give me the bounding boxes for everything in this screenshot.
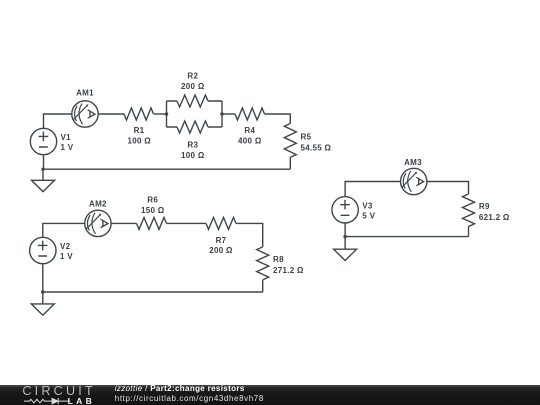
svg-text:AM2: AM2 (89, 199, 107, 208)
svg-text:R3: R3 (187, 141, 198, 150)
wire R8 bottom lead (262, 280, 264, 292)
wire circuit1 bottom rail (43, 168, 290, 170)
svg-text:V1: V1 (61, 133, 72, 142)
node ground2 junction dot (41, 290, 45, 294)
wire V1 top to AM1 (44, 114, 72, 128)
svg-text:1 V: 1 V (61, 143, 74, 152)
svg-text:5 V: 5 V (362, 211, 375, 220)
voltage source V1 (30, 128, 56, 154)
wire V2 bottom to ground node (42, 264, 44, 292)
svg-text:R6: R6 (147, 195, 158, 204)
svg-text:R7: R7 (216, 236, 227, 245)
node ground3 junction dot (343, 235, 347, 239)
wire circuit2 bottom rail (43, 291, 263, 293)
svg-text:R5: R5 (301, 132, 312, 141)
ammeter AM3 (401, 168, 427, 194)
wire V3 top to AM3 (345, 182, 400, 197)
wire V3 bottom to ground node (344, 223, 346, 237)
wire R3 leads (167, 126, 223, 128)
wire circuit3 bottom rail (345, 236, 468, 238)
svg-text:R1: R1 (134, 126, 145, 135)
svg-text:R8: R8 (273, 255, 284, 264)
svg-text:V2: V2 (60, 242, 71, 251)
resistor R7 (206, 217, 236, 229)
resistor R4 (235, 108, 265, 120)
ammeter AM2 (85, 210, 111, 236)
node A junction dot (165, 112, 169, 116)
resistor R3 (177, 121, 208, 133)
svg-text:V3: V3 (362, 201, 373, 210)
wire parallel box left bar (166, 101, 168, 127)
svg-text:150 Ω: 150 Ω (141, 206, 165, 215)
wire parallel box right bar (221, 101, 223, 127)
resistor R2 (177, 95, 208, 107)
ground circuit3 (334, 237, 357, 261)
wire R7 to R8 top corner (236, 223, 263, 247)
ammeter AM1 (72, 101, 98, 127)
svg-text:AM3: AM3 (404, 158, 422, 167)
wire AM3 to R9 top corner (427, 182, 469, 195)
wire R2 leads (167, 100, 223, 102)
resistor R9 (463, 194, 475, 227)
svg-text:R4: R4 (244, 126, 255, 135)
wire V1 bottom to ground node (43, 155, 45, 170)
resistor R8 (257, 247, 269, 280)
svg-text:200 Ω: 200 Ω (209, 246, 233, 255)
wire R4 to R5 top corner (265, 114, 291, 123)
svg-text:100 Ω: 100 Ω (127, 136, 151, 145)
wire AM2 to R6 (111, 222, 136, 224)
svg-text:271.2 Ω: 271.2 Ω (273, 266, 304, 275)
resistor R1 (124, 108, 154, 120)
wire R6 to R7 (167, 222, 207, 224)
svg-text:R9: R9 (479, 202, 490, 211)
svg-text:100 Ω: 100 Ω (181, 151, 205, 160)
svg-text:1 V: 1 V (60, 252, 73, 261)
svg-text:R2: R2 (187, 71, 198, 80)
voltage source V2 (30, 237, 56, 263)
resistor R5 (284, 123, 296, 157)
wire V2 top to AM2 (43, 223, 85, 237)
svg-text:54.55 Ω: 54.55 Ω (301, 143, 332, 152)
ground circuit2 (31, 292, 54, 315)
node ground1 junction dot (41, 167, 45, 171)
resistor R6 (137, 217, 167, 229)
wire R9 bottom lead (468, 227, 470, 237)
wire AM1 to R1 (98, 113, 124, 115)
svg-text:200 Ω: 200 Ω (181, 82, 205, 91)
ground circuit1 (32, 169, 55, 191)
svg-text:621.2 Ω: 621.2 Ω (479, 213, 510, 222)
logo resistor-diode glyph (24, 396, 71, 405)
svg-text:AM1: AM1 (76, 88, 94, 97)
svg-text:400 Ω: 400 Ω (238, 136, 262, 145)
voltage source V3 (332, 197, 358, 223)
wire node B to R4 (222, 113, 235, 115)
wire R5 bottom lead (289, 157, 291, 169)
wire R1 to node A (154, 113, 167, 115)
node B junction dot (220, 112, 224, 116)
